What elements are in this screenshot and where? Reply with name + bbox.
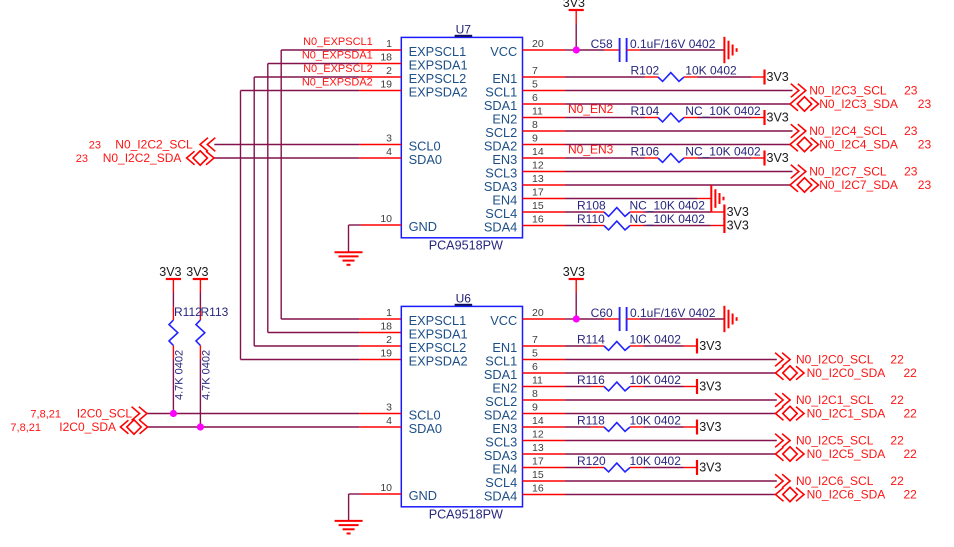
svg-text:7: 7 (532, 334, 538, 346)
svg-text:3V3: 3V3 (699, 339, 721, 353)
svg-text:R118: R118 (577, 414, 605, 428)
svg-text:20: 20 (532, 307, 544, 319)
svg-text:3V3: 3V3 (767, 151, 789, 165)
svg-text:3: 3 (386, 402, 392, 414)
svg-text:12: 12 (532, 429, 544, 441)
svg-text:N0_I2C1_SCL: N0_I2C1_SCL (796, 393, 874, 407)
svg-text:SDA4: SDA4 (484, 220, 517, 235)
svg-text:6: 6 (532, 361, 538, 373)
svg-text:N0_I2C7_SCL: N0_I2C7_SCL (809, 165, 887, 179)
svg-text:R102: R102 (631, 64, 660, 78)
svg-text:NC_10K 0402: NC_10K 0402 (685, 104, 761, 118)
svg-text:R110: R110 (577, 212, 605, 226)
svg-text:23: 23 (89, 140, 101, 152)
svg-text:R120: R120 (577, 454, 606, 468)
svg-text:3V3: 3V3 (186, 265, 208, 279)
svg-text:18: 18 (380, 52, 392, 64)
svg-text:17: 17 (532, 456, 544, 468)
svg-text:U7: U7 (456, 23, 472, 37)
svg-text:3V3: 3V3 (699, 420, 721, 434)
svg-text:N0_EXPSDA2: N0_EXPSDA2 (302, 76, 373, 88)
svg-text:VCC: VCC (490, 313, 517, 328)
svg-text:22: 22 (890, 353, 904, 367)
svg-text:14: 14 (532, 415, 544, 427)
svg-text:3V3: 3V3 (727, 219, 749, 233)
svg-text:3V3: 3V3 (767, 111, 789, 125)
svg-text:3V3: 3V3 (159, 265, 181, 279)
svg-text:3V3: 3V3 (727, 205, 749, 219)
svg-text:N0_I2C2_SDA: N0_I2C2_SDA (103, 151, 182, 165)
svg-text:R114: R114 (577, 333, 605, 347)
svg-text:C60: C60 (591, 306, 613, 320)
svg-text:GND: GND (409, 488, 437, 503)
svg-text:N0_EXPSCL2: N0_EXPSCL2 (303, 63, 373, 75)
svg-text:23: 23 (76, 153, 88, 165)
svg-text:6: 6 (532, 92, 538, 104)
svg-text:22: 22 (890, 434, 904, 448)
svg-text:15: 15 (532, 469, 544, 481)
svg-text:N0_I2C4_SDA: N0_I2C4_SDA (819, 138, 898, 152)
svg-text:8: 8 (532, 388, 538, 400)
svg-text:3V3: 3V3 (563, 0, 585, 10)
svg-text:N0_I2C0_SCL: N0_I2C0_SCL (796, 353, 874, 367)
svg-text:3V3: 3V3 (767, 70, 789, 84)
svg-text:7: 7 (532, 65, 538, 77)
svg-text:23: 23 (918, 138, 932, 152)
svg-text:GND: GND (409, 219, 437, 234)
svg-text:N0_I2C6_SCL: N0_I2C6_SCL (796, 474, 874, 488)
svg-text:20: 20 (532, 38, 544, 50)
svg-text:4.7K 0402: 4.7K 0402 (200, 350, 212, 400)
svg-text:N0_I2C5_SCL: N0_I2C5_SCL (796, 434, 874, 448)
svg-text:N0_I2C7_SDA: N0_I2C7_SDA (819, 178, 898, 192)
svg-text:N0_I2C2_SCL: N0_I2C2_SCL (115, 138, 193, 152)
svg-text:EXPSDA2: EXPSDA2 (409, 354, 468, 369)
svg-text:PCA9518PW: PCA9518PW (429, 239, 503, 253)
svg-text:N0_I2C3_SDA: N0_I2C3_SDA (819, 97, 898, 111)
svg-text:N0_EN3: N0_EN3 (568, 143, 614, 157)
svg-text:19: 19 (380, 348, 392, 360)
svg-text:22: 22 (890, 474, 904, 488)
svg-text:13: 13 (532, 173, 544, 185)
svg-text:10K 0402: 10K 0402 (630, 454, 682, 468)
svg-text:23: 23 (904, 165, 918, 179)
svg-text:18: 18 (380, 321, 392, 333)
svg-text:19: 19 (380, 79, 392, 91)
svg-text:2: 2 (386, 65, 392, 77)
svg-text:SDA4: SDA4 (484, 489, 517, 504)
svg-text:23: 23 (918, 178, 932, 192)
svg-text:NC_10K 0402: NC_10K 0402 (630, 199, 706, 213)
svg-text:4: 4 (386, 415, 392, 427)
svg-text:22: 22 (904, 447, 918, 461)
svg-text:3V3: 3V3 (563, 265, 585, 279)
svg-text:N0_EXPSDA1: N0_EXPSDA1 (302, 49, 373, 61)
svg-text:5: 5 (532, 79, 538, 91)
svg-text:SDA0: SDA0 (409, 421, 442, 436)
svg-text:11: 11 (532, 375, 543, 387)
svg-text:4.7K 0402: 4.7K 0402 (173, 350, 185, 400)
svg-text:10: 10 (380, 482, 392, 494)
svg-text:0.1uF/16V 0402: 0.1uF/16V 0402 (630, 306, 716, 320)
svg-text:23: 23 (918, 97, 932, 111)
svg-text:N0_I2C1_SDA: N0_I2C1_SDA (807, 407, 886, 421)
svg-text:15: 15 (532, 200, 544, 212)
svg-text:13: 13 (532, 442, 544, 454)
svg-text:5: 5 (532, 348, 538, 360)
svg-text:10K 0402: 10K 0402 (685, 64, 737, 78)
svg-text:NC_10K 0402: NC_10K 0402 (630, 212, 706, 226)
svg-text:R116: R116 (577, 373, 605, 387)
svg-text:N0_EN2: N0_EN2 (568, 102, 614, 116)
svg-text:22: 22 (890, 393, 904, 407)
svg-text:17: 17 (532, 187, 544, 199)
svg-text:R113: R113 (201, 305, 229, 319)
svg-text:I2C0_SCL: I2C0_SCL (77, 406, 133, 420)
svg-text:14: 14 (532, 146, 544, 158)
svg-text:1: 1 (386, 38, 392, 50)
svg-text:VCC: VCC (490, 44, 517, 59)
svg-text:I2C0_SDA: I2C0_SDA (59, 420, 116, 434)
svg-text:7,8,21: 7,8,21 (30, 408, 61, 420)
svg-text:12: 12 (532, 160, 544, 172)
svg-text:N0_I2C4_SCL: N0_I2C4_SCL (809, 124, 887, 138)
svg-text:R106: R106 (631, 145, 660, 159)
svg-text:22: 22 (904, 488, 918, 502)
svg-text:10K 0402: 10K 0402 (630, 333, 682, 347)
svg-text:3: 3 (386, 133, 392, 145)
svg-text:2: 2 (386, 334, 392, 346)
svg-text:N0_I2C6_SDA: N0_I2C6_SDA (807, 488, 886, 502)
svg-text:10K 0402: 10K 0402 (630, 414, 682, 428)
svg-text:3V3: 3V3 (699, 380, 721, 394)
svg-text:SDA0: SDA0 (409, 152, 442, 167)
svg-text:0.1uF/16V 0402: 0.1uF/16V 0402 (630, 37, 716, 51)
svg-text:8: 8 (532, 119, 538, 131)
svg-text:16: 16 (532, 483, 544, 495)
svg-text:PCA9518PW: PCA9518PW (429, 508, 503, 522)
svg-text:7,8,21: 7,8,21 (10, 422, 41, 434)
svg-text:9: 9 (532, 133, 538, 145)
svg-text:9: 9 (532, 402, 538, 414)
svg-text:NC_10K 0402: NC_10K 0402 (685, 145, 761, 159)
svg-text:23: 23 (904, 124, 918, 138)
svg-text:C58: C58 (591, 37, 613, 51)
svg-text:4: 4 (386, 146, 392, 158)
svg-text:22: 22 (904, 407, 918, 421)
svg-text:16: 16 (532, 214, 544, 226)
svg-text:N0_I2C5_SDA: N0_I2C5_SDA (807, 447, 886, 461)
svg-text:11: 11 (532, 106, 543, 118)
svg-text:3V3: 3V3 (699, 461, 721, 475)
svg-text:R104: R104 (631, 104, 660, 118)
svg-text:N0_I2C3_SCL: N0_I2C3_SCL (809, 84, 887, 98)
svg-text:R108: R108 (577, 199, 606, 213)
svg-text:N0_I2C0_SDA: N0_I2C0_SDA (807, 366, 886, 380)
svg-text:10: 10 (380, 213, 392, 225)
svg-text:1: 1 (386, 307, 392, 319)
svg-text:U6: U6 (456, 292, 472, 306)
svg-text:EXPSDA2: EXPSDA2 (409, 85, 468, 100)
svg-text:22: 22 (904, 366, 918, 380)
svg-text:23: 23 (904, 84, 918, 98)
svg-text:10K 0402: 10K 0402 (630, 373, 682, 387)
svg-text:N0_EXPSCL1: N0_EXPSCL1 (303, 36, 373, 48)
svg-text:R112: R112 (174, 305, 202, 319)
